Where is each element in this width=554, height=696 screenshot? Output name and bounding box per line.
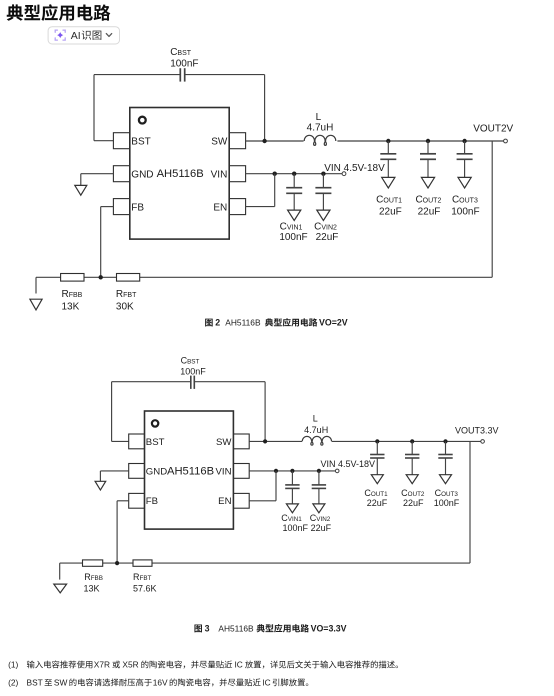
svg-text:4.7uH: 4.7uH [304,425,328,435]
svg-text:AI: AI [71,30,81,42]
svg-text:(2): (2) [8,678,18,688]
svg-text:IC: IC [234,660,242,670]
svg-text:EN: EN [218,496,231,507]
svg-text:VOUT2V: VOUT2V [473,123,513,134]
svg-text:VIN: VIN [216,466,232,477]
svg-text:3: 3 [205,624,210,634]
svg-text:AH5116B: AH5116B [218,624,254,634]
svg-text:SW: SW [216,437,232,448]
svg-text:VIN 4.5V-18V: VIN 4.5V-18V [321,459,376,469]
svg-text:AH5116B: AH5116B [225,318,261,328]
svg-text:L: L [316,112,322,123]
svg-text:L: L [313,414,318,424]
svg-text:BST: BST [146,437,165,448]
svg-text:13K: 13K [62,301,80,312]
svg-text:AH5116B: AH5116B [167,466,214,478]
svg-text:22uF: 22uF [316,232,339,243]
svg-text:EN: EN [213,202,227,213]
svg-text:SW: SW [211,136,228,147]
svg-text:22uF: 22uF [418,206,441,217]
svg-text:100nF: 100nF [283,523,309,533]
svg-text:100nF: 100nF [279,232,307,243]
svg-text:100nF: 100nF [170,59,198,70]
svg-text:VO=3.3V: VO=3.3V [311,624,347,634]
svg-text:X5R: X5R [122,660,138,670]
svg-text:4.7uH: 4.7uH [307,122,334,133]
svg-text:BST: BST [131,136,150,147]
svg-text:IC: IC [262,678,270,688]
svg-text:22uF: 22uF [311,523,332,533]
svg-text:100nF: 100nF [451,206,479,217]
svg-text:GND: GND [146,466,167,477]
svg-text:100nF: 100nF [434,498,460,508]
svg-text:BST: BST [27,678,43,688]
svg-text:30K: 30K [116,301,134,312]
svg-text:100nF: 100nF [180,366,206,376]
svg-text:16V: 16V [153,678,168,688]
svg-text:2: 2 [215,318,220,328]
svg-text:FB: FB [131,202,144,213]
svg-text:VIN: VIN [211,169,228,180]
svg-text:22uF: 22uF [367,498,388,508]
svg-text:AH5116B: AH5116B [157,168,204,180]
svg-text:SW: SW [54,678,68,688]
svg-text:57.6K: 57.6K [133,584,157,594]
svg-text:VIN 4.5V-18V: VIN 4.5V-18V [324,163,385,174]
svg-text:22uF: 22uF [379,206,402,217]
svg-text:GND: GND [131,169,153,180]
svg-text:(1): (1) [8,660,18,670]
svg-text:VO=2V: VO=2V [319,318,348,328]
svg-text:VOUT3.3V: VOUT3.3V [455,425,499,435]
svg-text:22uF: 22uF [403,498,424,508]
svg-text:X7R: X7R [94,660,110,670]
svg-text:FB: FB [146,496,158,507]
svg-text:13K: 13K [84,584,100,594]
